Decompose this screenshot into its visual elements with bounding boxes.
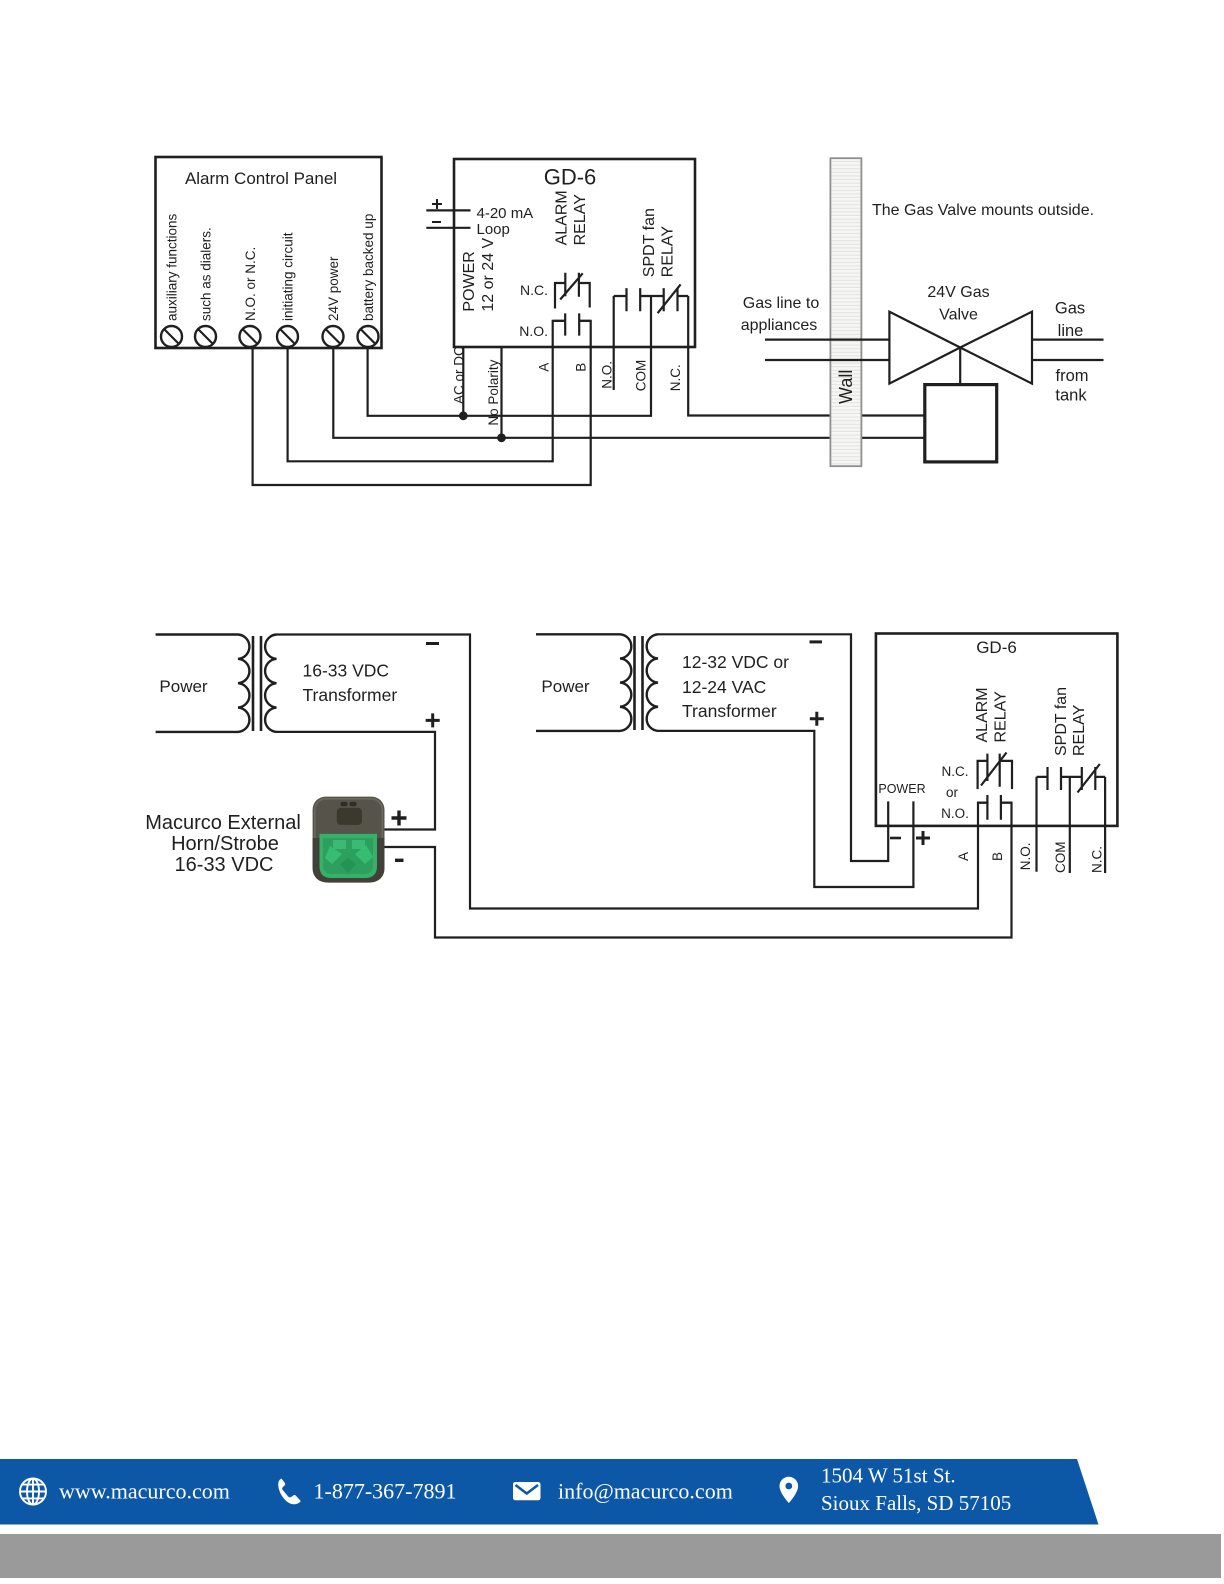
svg-text:N.C.: N.C. [1090,846,1105,873]
svg-text:appliances: appliances [741,317,818,334]
svg-text:info@macurco.com: info@macurco.com [558,1478,733,1503]
svg-text:COM: COM [1053,842,1068,874]
svg-text:B: B [574,363,589,372]
svg-text:or: or [946,785,959,800]
svg-text:RELAY: RELAY [1071,704,1088,756]
svg-text:N.O.: N.O. [941,806,969,821]
svg-text:auxiliary functions: auxiliary functions [165,213,180,321]
svg-text:Transformer: Transformer [682,701,777,721]
svg-text:1504 W 51st St.: 1504 W 51st St. [821,1464,956,1488]
svg-text:N.O.: N.O. [519,323,548,339]
svg-text:line: line [1058,322,1084,340]
svg-text:POWER: POWER [878,782,925,796]
svg-text:16-33 VDC: 16-33 VDC [303,661,390,681]
svg-text:16-33 VDC: 16-33 VDC [175,854,274,876]
svg-text:SPDT fan: SPDT fan [641,208,658,277]
svg-text:ALARM: ALARM [974,687,991,742]
svg-text:GD-6: GD-6 [976,638,1017,657]
svg-text:Valve: Valve [939,307,978,324]
svg-text:initiating circuit: initiating circuit [281,232,296,321]
svg-text:Loop: Loop [477,221,510,238]
svg-text:RELAY: RELAY [993,691,1010,743]
svg-text:1-877-367-7891: 1-877-367-7891 [314,1478,457,1503]
svg-text:N.C.: N.C. [942,764,969,779]
svg-text:4-20 mA: 4-20 mA [477,205,534,222]
svg-text:www.macurco.com: www.macurco.com [59,1478,230,1503]
svg-text:Macurco External: Macurco External [145,812,301,834]
svg-text:12-32 VDC or: 12-32 VDC or [682,652,789,672]
svg-text:24V power: 24V power [326,256,341,321]
svg-text:from: from [1056,367,1089,385]
svg-text:RELAY: RELAY [660,226,677,278]
svg-text:N.O.: N.O. [1018,843,1033,871]
svg-text:B: B [990,852,1005,861]
svg-text:SPDT fan: SPDT fan [1053,687,1070,756]
svg-text:Power: Power [159,677,208,696]
svg-text:N.C.: N.C. [520,282,548,298]
svg-text:Wall: Wall [836,370,856,404]
svg-text:12-24 VAC: 12-24 VAC [682,677,766,697]
svg-text:such as dialers.: such as dialers. [199,227,214,321]
svg-text:24V Gas: 24V Gas [927,284,989,301]
svg-text:N.O.: N.O. [600,361,615,389]
svg-text:POWER: POWER [461,251,478,311]
svg-text:ALARM: ALARM [554,190,571,245]
svg-text:Transformer: Transformer [303,685,398,705]
svg-text:The Gas Valve mounts outside.: The Gas Valve mounts outside. [872,202,1094,219]
svg-text:Power: Power [541,677,590,696]
svg-text:A: A [956,852,971,861]
svg-text:N.O. or N.C.: N.O. or N.C. [243,247,258,321]
svg-text:12 or 24 V: 12 or 24 V [480,237,497,311]
svg-text:Gas line to: Gas line to [743,295,820,312]
svg-text:tank: tank [1055,387,1087,405]
svg-text:Horn/Strobe: Horn/Strobe [171,833,279,855]
svg-text:Alarm Control Panel: Alarm Control Panel [185,169,337,188]
svg-text:A: A [537,363,552,372]
svg-text:Sioux Falls, SD 57105: Sioux Falls, SD 57105 [821,1491,1011,1515]
svg-text:No Polarity: No Polarity [486,359,501,425]
svg-text:N.C.: N.C. [668,364,683,391]
svg-text:RELAY: RELAY [572,194,589,246]
svg-text:AC or DC: AC or DC [452,346,467,404]
svg-text:Gas: Gas [1055,300,1085,318]
svg-text:GD-6: GD-6 [544,165,597,190]
svg-text:battery backed up: battery backed up [361,214,376,321]
svg-text:COM: COM [634,360,649,392]
